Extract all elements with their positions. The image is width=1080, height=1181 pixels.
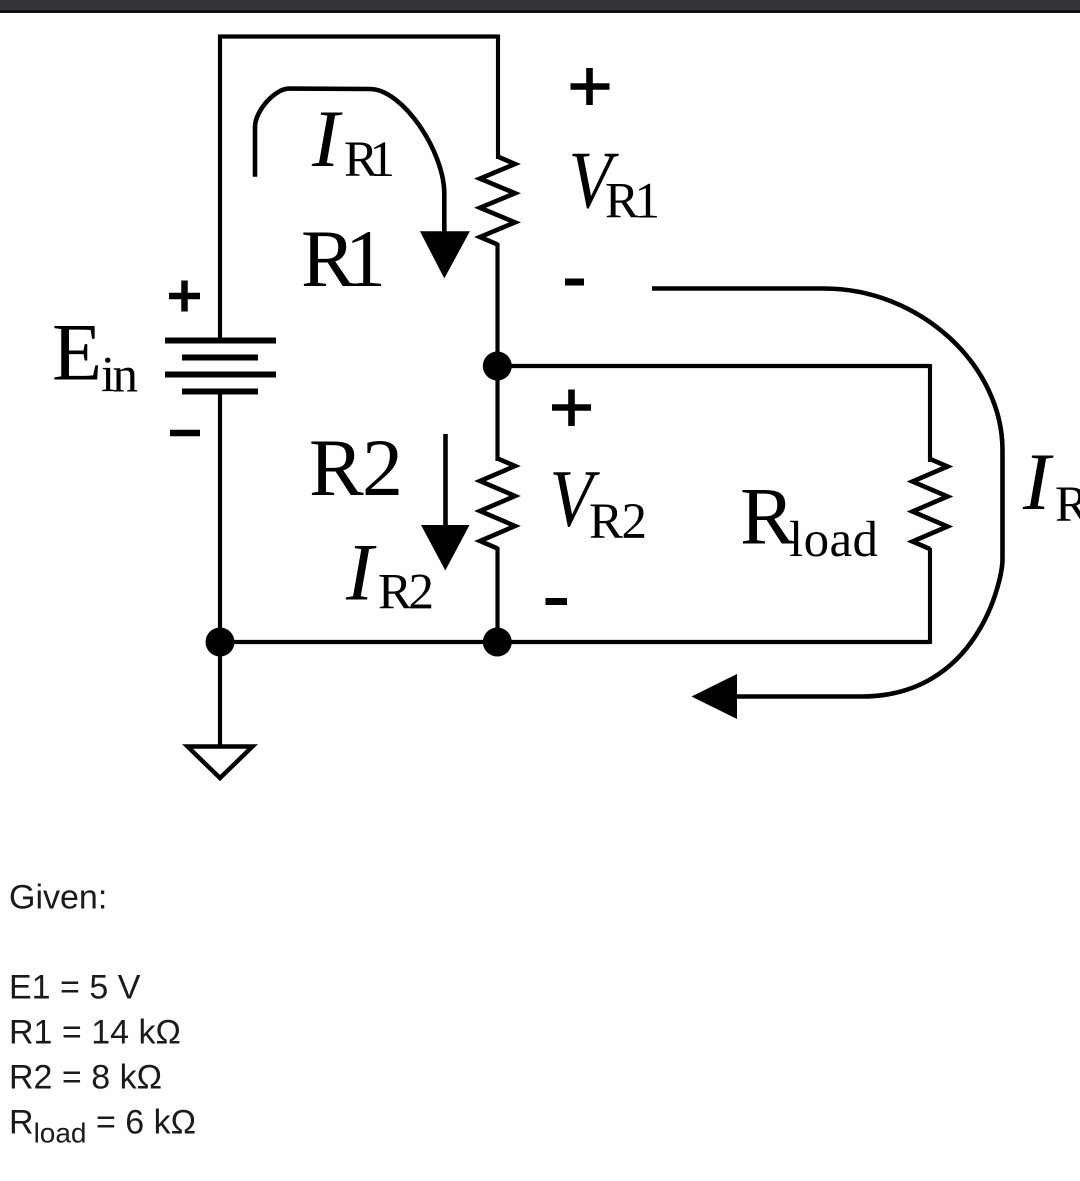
wire: node A to R2 bbox=[495, 364, 499, 461]
label VR1 plus bbox=[571, 68, 610, 105]
label VR2 plus bbox=[552, 390, 591, 427]
wire: R1 bottom to node A bbox=[495, 243, 499, 368]
svg-text:R2: R2 bbox=[309, 422, 403, 513]
wire: R2 bottom to bottom node bbox=[495, 547, 499, 643]
svg-text:R1: R1 bbox=[605, 174, 660, 230]
svg-text:in: in bbox=[101, 348, 138, 404]
svg-text:E: E bbox=[52, 307, 102, 398]
svg-text:Given:: Given: bbox=[9, 879, 107, 917]
svg-text:I: I bbox=[311, 93, 343, 184]
wire: left vertical (battery top lead) bbox=[218, 35, 222, 341]
wire: bottom horizontal bbox=[220, 640, 930, 644]
battery plus sign bbox=[169, 281, 200, 312]
node A (junction dot mid) bbox=[483, 352, 512, 381]
svg-text:R: R bbox=[1055, 477, 1080, 533]
current arrow IR1 (curved) bbox=[255, 89, 444, 233]
svg-text:I: I bbox=[345, 527, 377, 618]
label VR2 minus bbox=[546, 598, 568, 605]
wire: right vertical top (to R1) bbox=[496, 35, 500, 160]
svg-text:R2: R2 bbox=[378, 565, 434, 621]
resistor R1 bbox=[480, 157, 515, 245]
battery Ein plates bbox=[165, 341, 276, 392]
wire: node A to R_load (top of load loop) bbox=[498, 364, 931, 368]
ground bbox=[188, 747, 253, 779]
svg-text:load: load bbox=[789, 512, 878, 568]
svg-text:R: R bbox=[740, 471, 795, 562]
top status bar bbox=[0, 0, 1080, 12]
current arrow IR2 (straight) bbox=[443, 434, 448, 528]
svg-text:R1 = 14 kΩ: R1 = 14 kΩ bbox=[9, 1014, 181, 1052]
battery minus sign bbox=[170, 430, 200, 437]
wire: load loop right vertical upper bbox=[928, 364, 932, 462]
wire: load loop right vertical lower bbox=[928, 548, 932, 644]
wire: battery bottom lead bbox=[218, 392, 222, 643]
label VR1 minus bbox=[565, 279, 584, 286]
current arrow IR (big loop right) bbox=[652, 289, 1003, 697]
wire: top horizontal bbox=[220, 34, 498, 38]
node: bottom-middle junction dot bbox=[483, 628, 512, 657]
svg-text:R1: R1 bbox=[344, 132, 395, 188]
node: bottom-left junction dot bbox=[206, 628, 235, 657]
resistor Rload bbox=[913, 459, 948, 549]
svg-text:R1: R1 bbox=[301, 213, 386, 304]
resistor R2 bbox=[480, 459, 515, 549]
svg-text:I: I bbox=[1022, 436, 1054, 527]
svg-text:R2 = 8 kΩ: R2 = 8 kΩ bbox=[9, 1059, 162, 1097]
svg-text:R2: R2 bbox=[589, 494, 647, 550]
svg-text:E1 = 5 V: E1 = 5 V bbox=[9, 969, 141, 1007]
ground stem bbox=[218, 642, 222, 745]
